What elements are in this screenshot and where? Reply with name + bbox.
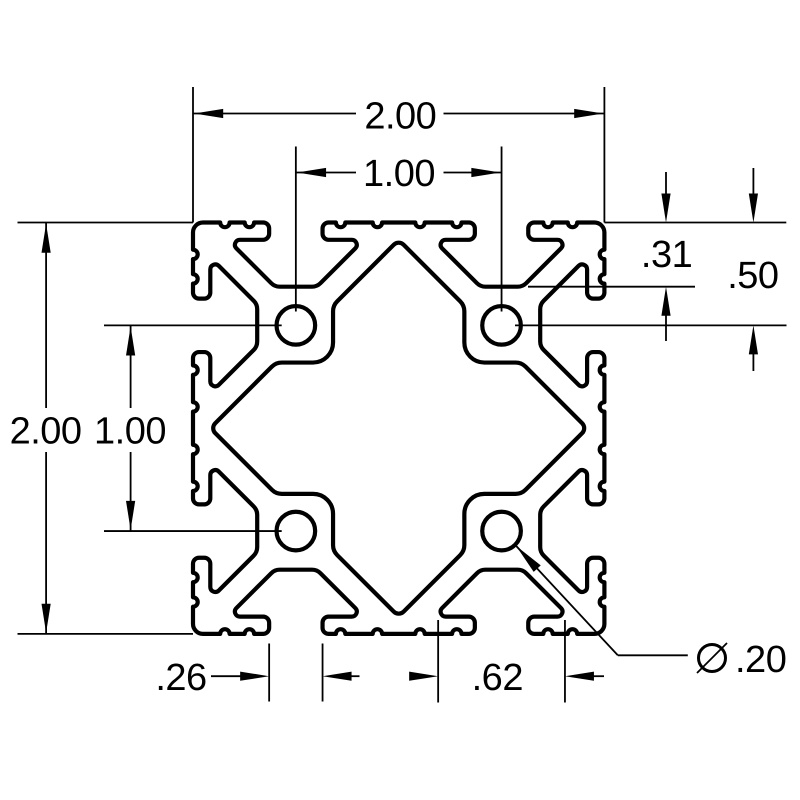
bottom-right mounting hole: [482, 512, 521, 551]
svg-text:.20: .20: [735, 639, 786, 681]
svg-text:2.00: 2.00: [364, 96, 436, 138]
dim .31 right: [604, 222, 786, 224]
dim .62 bottom: [437, 620, 439, 703]
dim 2.00 top: [192, 87, 194, 223]
extrusion profile outer boundary with T-slots: [193, 223, 604, 634]
svg-text:.26: .26: [155, 657, 206, 699]
bottom-left mounting hole: [277, 512, 316, 551]
central cavity: [213, 243, 584, 614]
svg-text:.50: .50: [727, 255, 778, 297]
dim 2.00 left: [18, 222, 194, 224]
leader dia .20: [516, 546, 618, 655]
top-right mounting hole: [482, 306, 521, 345]
svg-text:.62: .62: [472, 657, 523, 699]
dim 1.00 left: [104, 324, 282, 326]
svg-text:2.00: 2.00: [10, 411, 82, 453]
top-left mounting hole: [277, 306, 316, 345]
dim 1.00 top: [295, 147, 297, 312]
svg-text:.31: .31: [641, 234, 692, 276]
dim .26 bottom: [268, 644, 270, 702]
svg-text:1.00: 1.00: [363, 153, 435, 195]
dim .50 right: [515, 324, 787, 326]
svg-text:1.00: 1.00: [94, 411, 166, 453]
